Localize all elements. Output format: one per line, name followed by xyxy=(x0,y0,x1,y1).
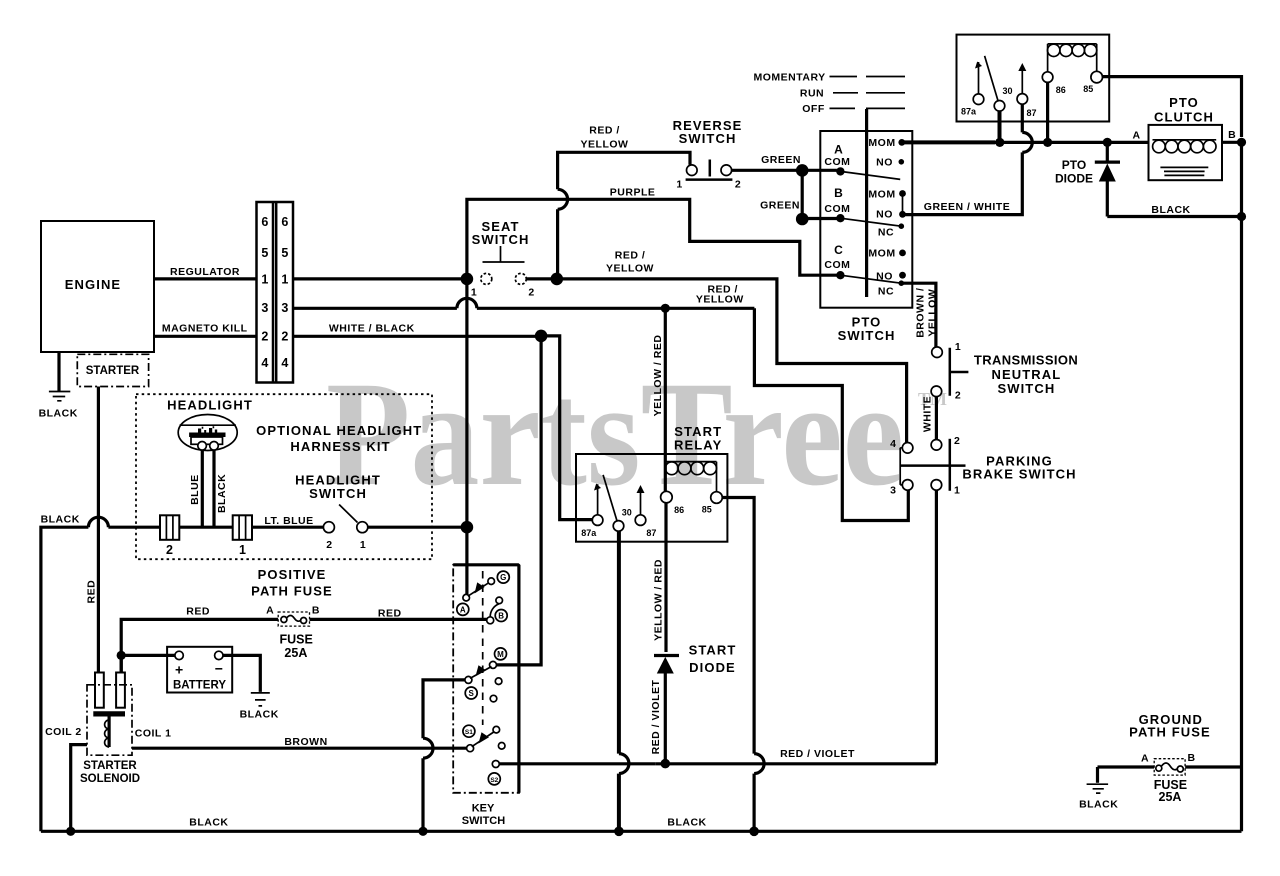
start relay 87 riser with arrow xyxy=(640,488,642,515)
relay K1 box xyxy=(957,35,1110,122)
parking brake switch pin 2 xyxy=(931,440,942,451)
PTO C mom contact xyxy=(899,250,906,257)
PTO A no contact xyxy=(899,159,905,165)
PTO A blade xyxy=(840,171,900,179)
svg-text:WHITE / BLACK: WHITE / BLACK xyxy=(329,323,415,335)
wire pin2 white/black xyxy=(293,335,541,338)
svg-text:COM: COM xyxy=(824,259,850,271)
wire seat line down to key switch xyxy=(465,279,468,595)
svg-text:86: 86 xyxy=(1056,85,1066,95)
svg-text:SWITCH: SWITCH xyxy=(462,815,505,827)
svg-text:RUN: RUN xyxy=(800,88,824,100)
ground path ground symbol xyxy=(1096,767,1099,783)
svg-text:YELLOW: YELLOW xyxy=(606,263,654,275)
svg-text:TRANSMISSION: TRANSMISSION xyxy=(974,353,1079,368)
headlight terminal circles xyxy=(198,442,207,451)
wire key S to ground bus xyxy=(423,680,465,831)
PTO B blade xyxy=(840,218,901,226)
svg-text:1: 1 xyxy=(676,179,682,191)
key terminal G xyxy=(497,571,509,583)
fuse F2 25A xyxy=(1154,759,1185,775)
svg-text:RED: RED xyxy=(186,606,210,618)
svg-text:2: 2 xyxy=(261,330,268,344)
PTO clutch coil xyxy=(1153,139,1217,141)
engine ground symbol xyxy=(49,392,70,401)
key contact S2 mate xyxy=(492,761,499,768)
key terminal S2 xyxy=(488,773,500,785)
key terminal A xyxy=(457,603,469,615)
svg-text:BLACK: BLACK xyxy=(41,514,80,526)
bottom ground bus xyxy=(41,830,1242,833)
svg-text:GREEN / WHITE: GREEN / WHITE xyxy=(924,201,1010,213)
svg-text:STARTER: STARTER xyxy=(83,760,137,772)
svg-text:5: 5 xyxy=(261,246,268,260)
svg-text:COM: COM xyxy=(824,203,850,215)
wire pin1 to seat switch xyxy=(293,277,467,280)
node headlight junction on seat line xyxy=(461,521,474,534)
svg-text:SWITCH: SWITCH xyxy=(838,328,896,343)
svg-text:1: 1 xyxy=(955,341,961,353)
engine ground wire xyxy=(57,352,60,392)
relay K1 coil pin 85 xyxy=(1091,71,1103,83)
wire main feed to hop xyxy=(995,141,1149,144)
svg-text:BLACK: BLACK xyxy=(1151,204,1190,216)
svg-text:BLUE: BLUE xyxy=(189,474,201,505)
PTO diode xyxy=(1106,142,1109,162)
svg-text:BRAKE SWITCH: BRAKE SWITCH xyxy=(962,467,1076,482)
key terminal M xyxy=(495,648,507,660)
wire parking pin1 down xyxy=(935,490,938,763)
svg-text:B: B xyxy=(498,612,504,621)
parking brake switch pin 3 xyxy=(902,480,913,491)
wire mom A to relay node xyxy=(902,140,995,144)
svg-text:A: A xyxy=(266,604,274,616)
PTO B mom-no link xyxy=(902,197,904,212)
svg-text:YELLOW / RED: YELLOW / RED xyxy=(652,559,664,641)
key contact A mate xyxy=(463,594,470,601)
svg-text:B: B xyxy=(1228,129,1236,141)
wire S2 red/violet xyxy=(499,762,655,765)
svg-text:BLACK: BLACK xyxy=(667,817,706,829)
svg-text:CLUTCH: CLUTCH xyxy=(1154,110,1214,125)
svg-text:YELLOW: YELLOW xyxy=(696,294,744,306)
key contact small 1 xyxy=(495,678,502,685)
svg-text:DIODE: DIODE xyxy=(689,660,736,675)
node S ground on bus xyxy=(418,827,427,836)
start relay contact 87 xyxy=(635,515,646,526)
wire red/yellow seat to parking brake xyxy=(557,279,907,443)
node battery junction xyxy=(117,651,126,660)
svg-text:RED: RED xyxy=(378,607,402,619)
key arrow A to G xyxy=(468,581,491,596)
node 86 on main xyxy=(1043,138,1052,147)
wire regulator xyxy=(154,277,257,280)
svg-text:3: 3 xyxy=(281,301,288,315)
wire battery minus to ground xyxy=(223,655,260,692)
wire pin3 red/yellow with hop xyxy=(293,307,457,310)
svg-text:S1: S1 xyxy=(465,729,473,736)
svg-text:BROWN /: BROWN / xyxy=(914,288,926,338)
svg-text:ENGINE: ENGINE xyxy=(65,277,121,292)
svg-text:3: 3 xyxy=(261,301,268,315)
svg-text:S: S xyxy=(469,689,475,698)
start relay 87a riser xyxy=(597,484,599,515)
svg-text:HEADLIGHT: HEADLIGHT xyxy=(167,398,253,413)
wire between connectors xyxy=(179,526,232,529)
PTO A com contact xyxy=(836,167,844,175)
svg-text:1: 1 xyxy=(954,485,960,497)
key contact S1 mate xyxy=(467,745,474,752)
node relay85 ground xyxy=(749,827,759,837)
svg-text:MOMENTARY: MOMENTARY xyxy=(754,71,826,83)
starter solenoid box xyxy=(87,685,132,755)
transmission neutral switch pin 2 xyxy=(931,386,942,397)
headlight switch pin 2 xyxy=(323,522,334,533)
relay K1 contact 87a xyxy=(973,94,984,105)
wire lt blue xyxy=(252,526,323,529)
svg-text:1: 1 xyxy=(360,539,366,551)
svg-text:RED / VIOLET: RED / VIOLET xyxy=(650,679,662,754)
battery ground symbol xyxy=(251,693,270,706)
node seat pin2 junction xyxy=(551,273,564,286)
parking brake common link xyxy=(900,448,902,485)
key switch rotor dash line xyxy=(482,571,484,725)
wire blue xyxy=(201,450,204,527)
parking brake switch pin 1 xyxy=(931,480,942,491)
wire yellow/red down to start relay xyxy=(664,308,667,492)
svg-text:NEUTRAL: NEUTRAL xyxy=(991,367,1061,382)
relay K1 blade xyxy=(985,56,998,101)
svg-text:25A: 25A xyxy=(1159,790,1182,804)
svg-text:87: 87 xyxy=(646,528,656,538)
svg-text:B: B xyxy=(312,604,320,616)
svg-text:HARNESS KIT: HARNESS KIT xyxy=(290,439,390,454)
svg-text:4: 4 xyxy=(281,356,288,370)
engine block xyxy=(41,221,154,352)
wire red to fuse xyxy=(121,619,278,672)
start relay pin 86 xyxy=(661,491,673,503)
start relay contact 30 xyxy=(613,521,624,532)
key contact M mate xyxy=(490,661,497,668)
starter box xyxy=(77,354,148,386)
svg-text:1: 1 xyxy=(261,273,268,287)
key terminal S1 xyxy=(463,725,475,737)
svg-text:SWITCH: SWITCH xyxy=(472,232,530,247)
key B jumper arc xyxy=(490,604,499,617)
svg-text:−: − xyxy=(215,661,223,677)
svg-text:DIODE: DIODE xyxy=(1055,171,1093,185)
wire green reverse to PTO A xyxy=(732,169,837,172)
svg-text:RED / VIOLET: RED / VIOLET xyxy=(780,748,855,760)
node diode tap xyxy=(1103,138,1112,147)
relay K1 contact 87 xyxy=(1017,94,1028,105)
wire seat pin2 to node xyxy=(526,277,552,280)
PTO switch box xyxy=(820,131,912,308)
PTO B no contact xyxy=(899,211,906,218)
svg-text:SWITCH: SWITCH xyxy=(309,486,367,501)
svg-text:BLACK: BLACK xyxy=(1079,798,1118,810)
seat switch pin 1 xyxy=(481,273,492,284)
svg-text:3: 3 xyxy=(890,485,896,497)
reverse switch actuator xyxy=(686,160,733,180)
relay K1 coil xyxy=(1048,44,1097,72)
svg-text:1: 1 xyxy=(239,543,246,557)
wire black headlight xyxy=(212,450,215,527)
svg-text:RED /: RED / xyxy=(589,125,620,137)
PTO lever line xyxy=(865,109,868,297)
svg-text:A: A xyxy=(460,605,466,614)
svg-text:MOM: MOM xyxy=(868,188,895,200)
svg-text:NO: NO xyxy=(876,270,893,282)
svg-text:BLACK: BLACK xyxy=(240,709,279,721)
battery xyxy=(167,647,232,693)
wire white/black down to key M xyxy=(497,336,542,665)
relay K1 87a riser xyxy=(978,62,980,94)
node yellow/red junction xyxy=(661,304,670,313)
svg-text:87: 87 xyxy=(1026,108,1036,118)
wire 30 down to ground bus xyxy=(617,531,621,753)
svg-text:2: 2 xyxy=(528,287,534,299)
svg-text:LT. BLUE: LT. BLUE xyxy=(264,515,313,527)
key arrow S to M xyxy=(470,667,492,679)
svg-text:A: A xyxy=(834,143,843,157)
svg-text:GREEN: GREEN xyxy=(761,154,801,166)
svg-text:NC: NC xyxy=(878,285,894,297)
parking brake plunger xyxy=(900,464,965,467)
svg-text:PTO: PTO xyxy=(1169,95,1199,110)
svg-text:B: B xyxy=(1187,752,1195,764)
node black bus xyxy=(1237,212,1246,221)
wire right bus down xyxy=(1240,142,1243,831)
node main feed at 30 xyxy=(995,138,1004,147)
svg-text:A: A xyxy=(1141,753,1149,765)
svg-text:MAGNETO KILL: MAGNETO KILL xyxy=(162,322,248,334)
parking brake bar xyxy=(949,439,952,491)
PTO B com contact xyxy=(836,214,844,222)
headlight bulb xyxy=(178,415,237,451)
PTO clutch core lines xyxy=(1160,167,1208,175)
PTO clutch box xyxy=(1149,125,1223,180)
key contact small 4 xyxy=(498,743,505,750)
PTO B mom contact xyxy=(899,190,906,197)
wire black diode to bus xyxy=(1107,215,1241,218)
key contact small 2 xyxy=(490,695,497,702)
svg-text:2: 2 xyxy=(166,543,173,557)
wire red starter down xyxy=(97,387,100,673)
reverse switch pin 1 xyxy=(687,165,698,176)
svg-text:6: 6 xyxy=(281,215,288,229)
wire white neutral to parking brake xyxy=(935,397,938,440)
svg-text:6: 6 xyxy=(261,215,268,229)
svg-text:START: START xyxy=(689,643,737,658)
node relay30 ground xyxy=(614,827,624,837)
start relay coil xyxy=(665,462,716,492)
svg-text:NO: NO xyxy=(876,209,893,221)
svg-text:A: A xyxy=(1132,130,1140,142)
svg-text:30: 30 xyxy=(1002,86,1012,96)
wire red fuse to key switch xyxy=(310,618,487,621)
svg-text:SWITCH: SWITCH xyxy=(997,381,1055,396)
solenoid contact bar xyxy=(93,711,125,716)
PTO C blade xyxy=(840,275,901,283)
key terminal B xyxy=(495,610,507,622)
svg-text:SWITCH: SWITCH xyxy=(679,131,737,146)
optional headlight harness kit box xyxy=(136,394,432,559)
start relay contact 87a xyxy=(592,515,603,526)
key contact B upper xyxy=(496,597,503,604)
svg-text:COM: COM xyxy=(824,156,850,168)
svg-text:2: 2 xyxy=(954,435,960,447)
transmission neutral switch pin 1 xyxy=(932,347,943,358)
wire brown/yellow nc C to neutral switch xyxy=(901,283,936,347)
svg-text:GREEN: GREEN xyxy=(760,199,800,211)
svg-text:RED /: RED / xyxy=(615,250,646,262)
node start diode on red/violet xyxy=(661,759,671,769)
svg-text:4: 4 xyxy=(261,356,268,370)
hop green/white over main xyxy=(1022,132,1032,152)
svg-text:30: 30 xyxy=(622,508,632,518)
svg-text:BLACK: BLACK xyxy=(216,474,228,513)
svg-text:YELLOW: YELLOW xyxy=(581,139,629,151)
key terminal S xyxy=(465,687,477,699)
key arrow S1 xyxy=(472,732,495,747)
svg-text:PATH FUSE: PATH FUSE xyxy=(251,584,333,599)
wire 85 to ground bus xyxy=(722,498,754,754)
solenoid plunger stem xyxy=(107,717,110,748)
svg-text:RED: RED xyxy=(85,580,97,604)
svg-text:YELLOW: YELLOW xyxy=(927,289,939,337)
svg-text:BATTERY: BATTERY xyxy=(173,680,226,692)
key switch box xyxy=(453,565,519,793)
wire magneto kill xyxy=(154,335,257,338)
svg-text:C: C xyxy=(834,243,843,257)
wire headlight switch to seat line xyxy=(368,526,467,529)
wire 86 down to main xyxy=(1046,82,1049,142)
wire 86 down through diode xyxy=(664,503,667,652)
svg-text:MOM: MOM xyxy=(868,137,895,149)
wire 30 down to main node xyxy=(998,111,1002,142)
PTO C com contact xyxy=(836,271,844,279)
svg-text:KEY: KEY xyxy=(472,803,495,815)
svg-text:BROWN: BROWN xyxy=(284,736,327,748)
svg-text:1: 1 xyxy=(471,287,477,299)
wire red/yellow pin3 path xyxy=(754,308,908,520)
start relay blade xyxy=(603,475,617,521)
svg-text:SOLENOID: SOLENOID xyxy=(80,773,140,785)
wire black to left bus xyxy=(108,526,160,529)
wire green down xyxy=(801,170,804,219)
svg-text:B: B xyxy=(834,186,843,200)
svg-text:86: 86 xyxy=(674,505,684,515)
wire red/yellow up to reverse switch with hop xyxy=(556,209,559,279)
node green junction 2 xyxy=(796,213,809,226)
svg-text:OFF: OFF xyxy=(802,103,825,115)
wire solenoid to left ground bus xyxy=(71,745,87,832)
hop S-line over brown xyxy=(423,738,433,758)
wire purple branch up xyxy=(467,199,837,279)
seat switch stem symbol xyxy=(483,246,525,262)
start relay box xyxy=(576,454,727,542)
wire green/white no B to relay 87 xyxy=(903,104,1023,214)
parking brake switch pin 4 xyxy=(902,443,913,454)
relay K1 contact 30 xyxy=(994,101,1005,112)
svg-text:2: 2 xyxy=(735,179,741,191)
svg-text:PTO: PTO xyxy=(1062,158,1086,172)
svg-text:4: 4 xyxy=(890,438,896,450)
start relay pin 85 xyxy=(711,492,723,504)
node seat pin1 junction xyxy=(461,273,474,286)
transmission neutral switch bar xyxy=(950,348,969,396)
PTO C nc contact xyxy=(899,280,905,286)
svg-text:YELLOW / RED: YELLOW / RED xyxy=(652,335,664,417)
svg-text:MOM: MOM xyxy=(868,247,895,259)
wire clutch B to bus xyxy=(1222,141,1242,144)
PTO C no contact xyxy=(899,272,906,279)
wire battery plus to node xyxy=(121,654,175,657)
svg-text:85: 85 xyxy=(702,505,712,515)
svg-text:25A: 25A xyxy=(284,646,307,660)
svg-text:2: 2 xyxy=(955,390,961,402)
headlight switch blade xyxy=(339,505,357,523)
svg-text:REGULATOR: REGULATOR xyxy=(170,266,240,278)
start diode xyxy=(654,654,679,657)
svg-text:M: M xyxy=(497,650,504,659)
headlight connector 2 xyxy=(160,515,179,540)
relay K1 coil pin 86 xyxy=(1042,72,1053,83)
node solenoid ground on bus xyxy=(66,827,75,836)
svg-text:S2: S2 xyxy=(490,777,498,784)
svg-text:2: 2 xyxy=(326,539,332,551)
solenoid coil xyxy=(105,720,110,747)
wire brown solenoid to key S1 xyxy=(132,747,467,750)
svg-text:NO: NO xyxy=(876,156,893,168)
seat switch pin 2 xyxy=(515,273,526,284)
svg-text:FUSE: FUSE xyxy=(280,633,313,647)
svg-text:RELAY: RELAY xyxy=(674,438,722,453)
svg-text:87a: 87a xyxy=(581,528,597,538)
wire battery node down to post xyxy=(120,655,123,672)
svg-text:BLACK: BLACK xyxy=(189,817,228,829)
svg-text:WHITE: WHITE xyxy=(922,396,934,432)
svg-text:87a: 87a xyxy=(961,107,977,117)
relay K1 87 riser with arrow xyxy=(1021,66,1023,94)
wire green to PTO B com xyxy=(802,217,837,220)
key contact small 3 xyxy=(493,726,500,733)
svg-text:COIL 1: COIL 1 xyxy=(135,727,172,739)
svg-text:COIL 2: COIL 2 xyxy=(45,726,82,738)
svg-text:G: G xyxy=(500,573,506,582)
svg-text:1: 1 xyxy=(281,273,288,287)
headlight switch pin 1 xyxy=(357,522,368,533)
key contact S mate xyxy=(465,676,472,683)
reverse switch pin 2 xyxy=(721,165,732,176)
svg-text:STARTER: STARTER xyxy=(86,365,140,377)
wire 85 to right bus xyxy=(1103,77,1242,137)
key contact G mate xyxy=(488,578,495,585)
PTO A mom contact xyxy=(898,139,905,146)
svg-text:+: + xyxy=(175,662,183,678)
svg-text:2: 2 xyxy=(281,330,288,344)
svg-text:PURPLE: PURPLE xyxy=(610,187,656,199)
svg-text:85: 85 xyxy=(1083,84,1093,94)
wire white/black branch to start relay 87a xyxy=(541,336,592,520)
solenoid post right xyxy=(116,673,125,708)
node white/black to M junction xyxy=(535,330,548,343)
solenoid post left xyxy=(95,673,104,708)
headlight connector 1 xyxy=(233,515,252,540)
svg-text:BLACK: BLACK xyxy=(39,408,78,420)
svg-text:PATH FUSE: PATH FUSE xyxy=(1129,725,1211,740)
